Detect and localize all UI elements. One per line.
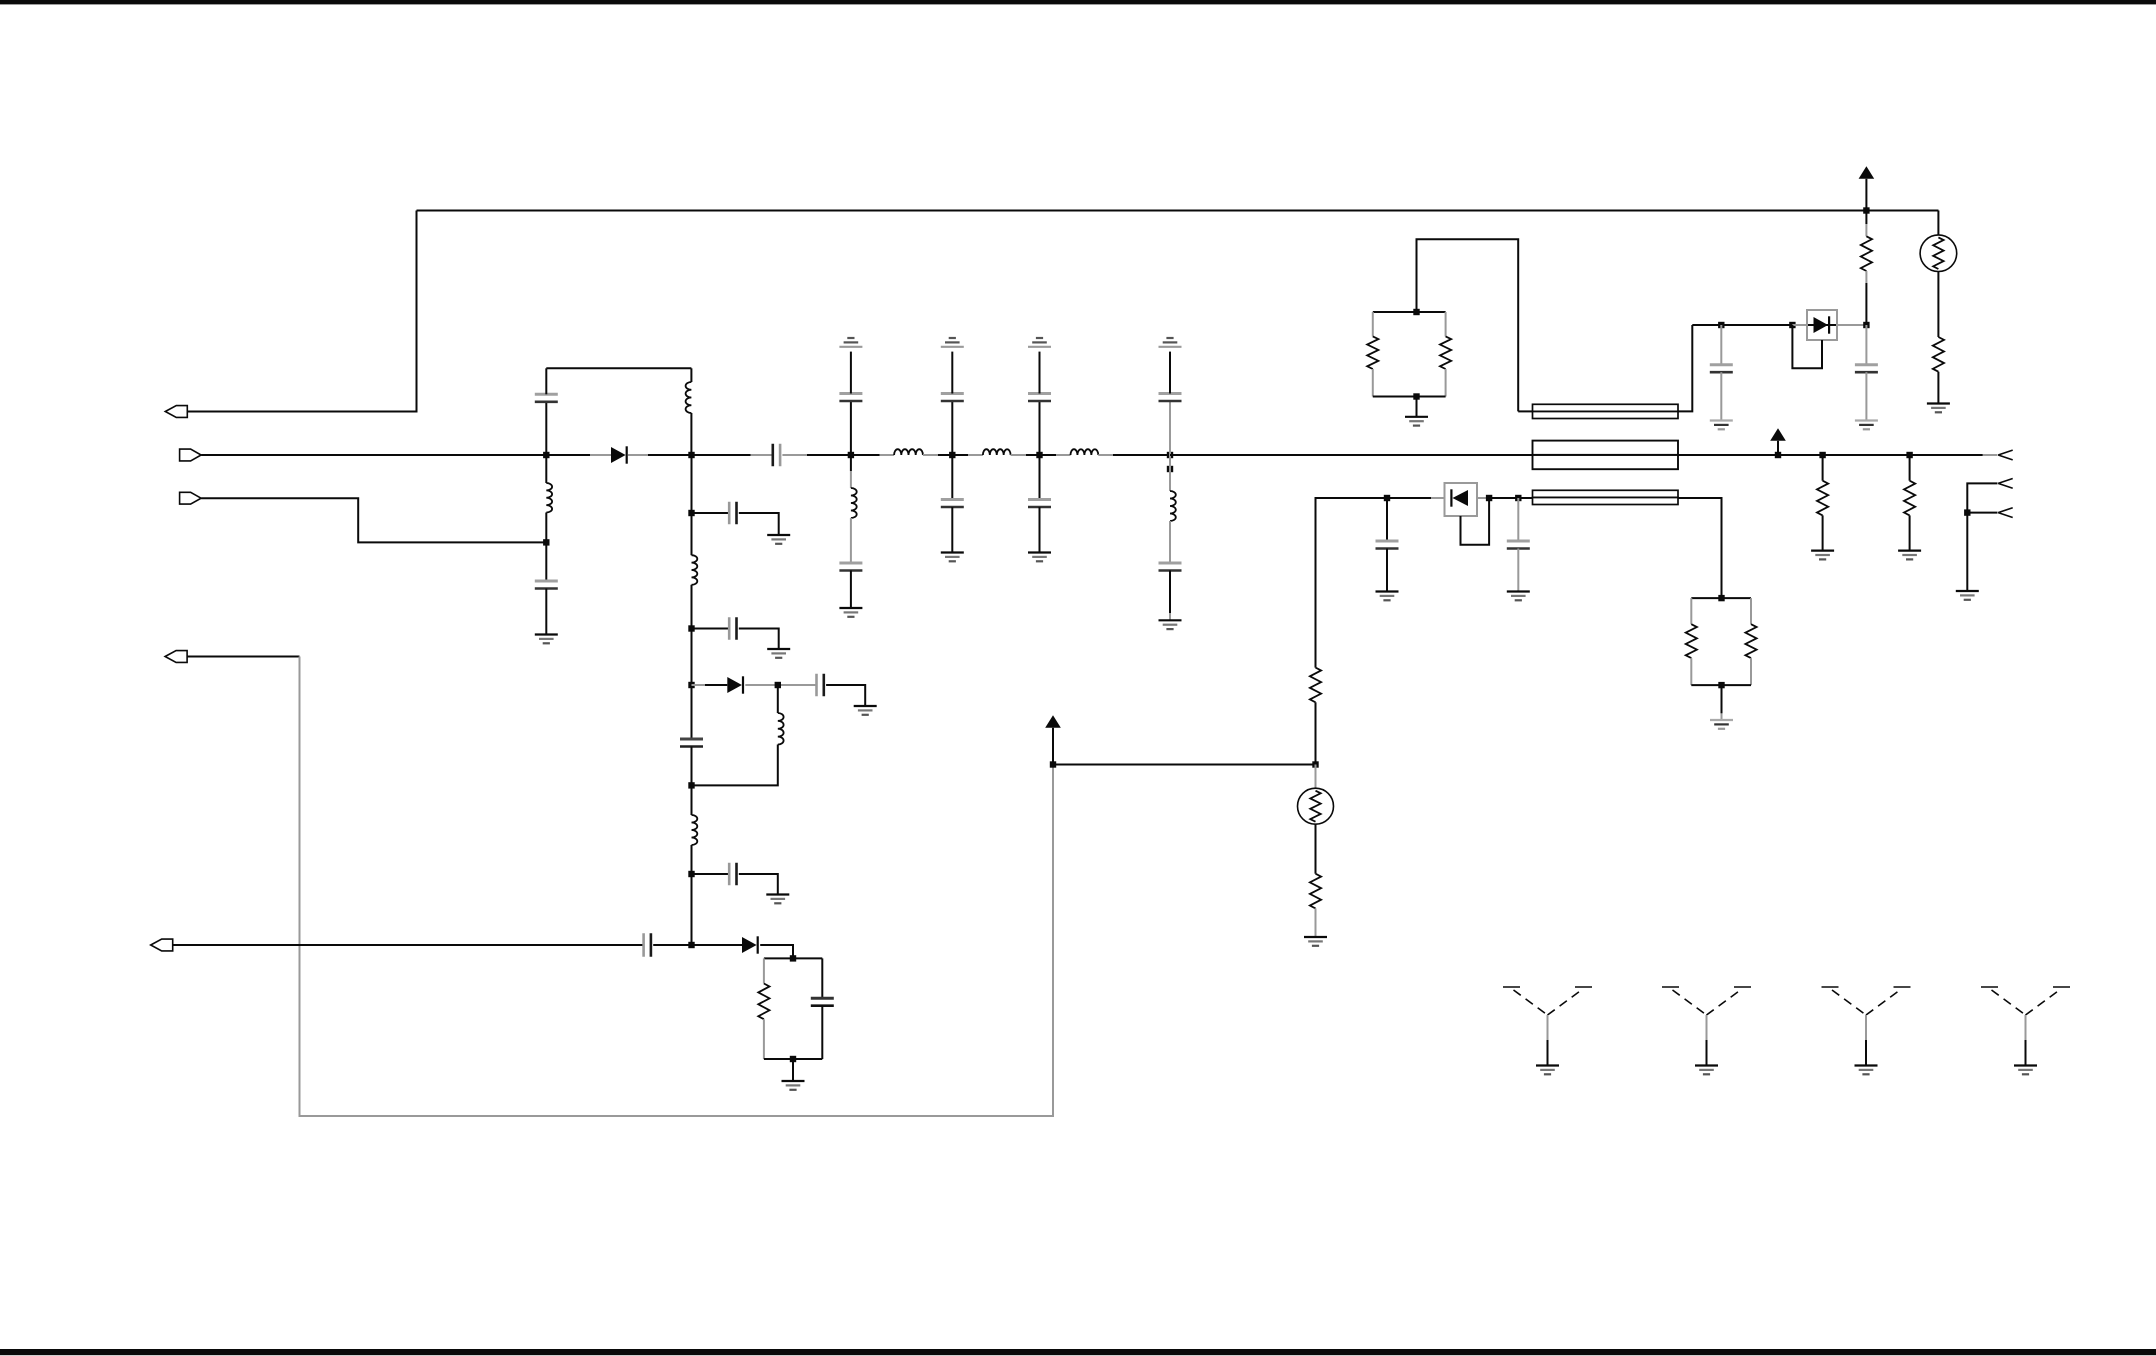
wire L1 to main line [690, 413, 692, 455]
wire R4 to node D [1315, 702, 1317, 764]
ground below C22 [1855, 421, 1878, 430]
wire corner down to RT2 [1937, 211, 1939, 236]
Rx node 3 junction [1515, 495, 1521, 501]
capacitor C21 (bias shunt 1) [1710, 325, 1733, 421]
stripline pair SL3 lower rect [1533, 497, 1679, 504]
node C1 junction [688, 510, 694, 516]
wire SL1 left feed [1518, 410, 1532, 412]
wire L4 top lead [777, 685, 779, 713]
wire J2 stub [1967, 483, 1997, 512]
col4 junction [1167, 452, 1173, 458]
inductor L1 (loop right) [686, 382, 692, 413]
col1 junction [848, 452, 854, 458]
resistor R9 (tank1 right) [1440, 312, 1451, 397]
ground below R10 [1811, 551, 1834, 560]
node E junction [1863, 207, 1869, 213]
wire Rx left corner [1316, 498, 1388, 668]
wire gray return loop [300, 657, 1054, 1117]
node C2 junction [688, 625, 694, 631]
wire L8 to col3 [1011, 454, 1040, 456]
inductor L3 (column) [692, 513, 698, 585]
thermistor RT1 (circle resistor) [1298, 765, 1334, 825]
wire Rx node1 to D3 [1387, 497, 1445, 499]
wire D1 to node C [628, 454, 692, 456]
inductor L9 (series) [1071, 449, 1099, 455]
bottom border bar [0, 1349, 2156, 1355]
ground below Y3 [1855, 1066, 1878, 1075]
wire SL1 right feed up [1678, 325, 1692, 411]
wire node A up to C1 [545, 402, 547, 455]
capacitor C3 (branch 1) [729, 502, 736, 525]
tank2 top rail [1691, 597, 1751, 599]
ground below C15 [1028, 553, 1051, 562]
wire RT2 to R6 [1937, 272, 1939, 338]
resistor R6 (right chain) [1933, 337, 1944, 372]
wire branch 1 [692, 512, 730, 514]
wire col2 to L8 [952, 454, 983, 456]
port P3 (input) [180, 492, 202, 504]
node R11 junction [1906, 452, 1912, 458]
capacitor C22 (bias shunt 2) [1855, 325, 1878, 421]
capacitor C7 (branch 4) [729, 863, 736, 886]
wire tank to ground [792, 1059, 794, 1081]
Rx node 2 junction [1486, 495, 1492, 501]
wire R6 to ground [1937, 372, 1939, 404]
wire node D rail [1053, 764, 1316, 766]
diode D2 (branch 3) [727, 676, 743, 693]
tank1 bottom rail [1373, 396, 1446, 398]
capacitor C1 (series, loop left) [535, 394, 558, 402]
antenna Y3 [1822, 987, 1911, 1066]
wire P4 stub [187, 656, 299, 658]
ground below C21 [1710, 421, 1733, 430]
capacitor C15 (col3 down) [1028, 455, 1051, 553]
ground below C20 [1507, 592, 1530, 601]
port P4 (output, mid left) [165, 651, 187, 663]
node A junction [543, 452, 549, 458]
wire node C6 to D5 [692, 944, 743, 946]
tank2 bottom rail [1691, 684, 1751, 686]
wire C7 to ground [739, 874, 778, 895]
inductor L7 (series) [894, 449, 923, 455]
node C4 junction [688, 782, 694, 788]
node D junction [1312, 761, 1318, 767]
wire branch 3 to D2 [692, 684, 728, 686]
inductor L10 (col4 down) [1170, 455, 1176, 521]
wire tank1 feed [1417, 239, 1519, 411]
wire L3 to node C2 [691, 585, 693, 629]
node F3 junction [1863, 322, 1869, 328]
node C3b junction (L4 top) [775, 682, 781, 688]
ground below C6 [854, 706, 877, 715]
wire node B to C2 [545, 542, 547, 581]
col3 junction [1036, 452, 1042, 458]
wire D3 bypass loop [1461, 498, 1490, 545]
inductor L5 (column) [692, 785, 698, 845]
wire SL2 to output [1678, 454, 1983, 456]
ground below R11 [1898, 551, 1921, 560]
wire L5 to node C5 [691, 845, 693, 874]
resistor R2 (tank2 left) [1686, 598, 1697, 685]
capacitor C9 (series, main line) [773, 444, 780, 467]
wire C4 to ground [739, 629, 779, 650]
node T4 junction [1718, 682, 1724, 688]
ground below tank [782, 1081, 805, 1090]
wire C2 to ground [545, 589, 547, 635]
antenna Y4 [1981, 987, 2070, 1066]
wire branch 4 [692, 873, 730, 875]
ground below C13 [941, 553, 964, 562]
ground below C4 [767, 649, 790, 658]
wire node A to D1 [546, 454, 611, 456]
node F2 junction [1789, 322, 1795, 328]
inductor L2 (node A down) [546, 455, 552, 513]
Rx node 1 junction [1384, 495, 1390, 501]
tank top rail [764, 957, 822, 959]
wire node C to C9 [692, 454, 773, 456]
ground above C14 [1028, 338, 1051, 347]
wire C1 to loop top [545, 368, 547, 394]
resistor R11 (output shunt 2) [1904, 455, 1915, 551]
capacitor C14 (col3 up) [1028, 352, 1051, 455]
wire RT1 to R5 [1315, 824, 1317, 874]
node T2 junction [790, 1056, 796, 1062]
wire tank1 to ground [1416, 397, 1418, 417]
ground below Y4 [2014, 1066, 2037, 1075]
capacitor C10 (col1 up) [839, 352, 862, 455]
node C5 junction [688, 871, 694, 877]
power arrow VB3 [1770, 428, 1786, 441]
node C3 junction [688, 682, 694, 688]
ground above C12 [941, 338, 964, 347]
wire tank2 to ground [1721, 685, 1723, 720]
top border bar [0, 0, 2156, 4]
wire node C down [691, 455, 693, 513]
capacitor C12 (col2 up) [941, 352, 964, 455]
wire D3 out [1477, 497, 1489, 499]
inductor L6 (col1 down) [851, 455, 857, 518]
tank1 top rail [1373, 311, 1446, 313]
wire col3 to L9 [1040, 454, 1071, 456]
stripline pair SL1 upper rect [1533, 404, 1679, 411]
wire VB2 stem [1865, 179, 1867, 211]
node B junction [543, 539, 549, 545]
ground below C18 [1159, 620, 1182, 629]
stripline pair SL3 upper rect [1533, 490, 1679, 497]
node C6 junction [688, 942, 694, 948]
stripline pair SL1 lower rect [1533, 411, 1679, 418]
wire C3 to ground [739, 513, 779, 535]
capacitor C11 (col1 down) [839, 518, 862, 608]
ground below J [1956, 591, 1979, 600]
thermistor RT2 (circle resistor) [1920, 235, 1957, 272]
connector arrow J1 (RF out) [1998, 450, 2013, 460]
capacitor C6 (branch 3) [817, 674, 824, 697]
wire branch 2 [692, 628, 730, 630]
ground below tank1 [1405, 417, 1428, 426]
power arrow VB1 [1045, 715, 1061, 728]
wire C17 to node C6 [653, 944, 691, 946]
wire col1 to L7 [851, 454, 894, 456]
wire P5 to C17 [173, 944, 643, 946]
resistor R8 (tank1 left) [1367, 312, 1378, 397]
node R10 junction [1819, 452, 1825, 458]
col2 junction [949, 452, 955, 458]
inductor L8 (series) [983, 449, 1011, 455]
wire C6 to ground [826, 685, 865, 706]
wire col4 to coupler [1170, 454, 1533, 456]
port P2 (main RF input) [180, 449, 202, 461]
ground above C16 [1159, 338, 1182, 347]
diode D1 (series, main line) [611, 446, 627, 463]
ground below C7 [766, 895, 789, 904]
node C junction [688, 452, 694, 458]
ground below Y1 [1536, 1066, 1559, 1075]
node T3 junction [1718, 595, 1724, 601]
resistor R4 (bias top) [1310, 668, 1321, 703]
wire J ground [1966, 513, 1968, 591]
wire C5 to node C4 [691, 747, 693, 786]
tank bottom rail [764, 1058, 822, 1060]
wire L2 to node B [545, 513, 547, 543]
resistor R10 (output shunt 1) [1817, 455, 1828, 551]
wire C9 to col1 [782, 454, 851, 456]
node F1 junction [1718, 322, 1724, 328]
ground below C19 [1376, 592, 1399, 601]
wire top rail to corner [1866, 210, 1938, 212]
port P5 (output, lower left) [151, 939, 173, 951]
antenna Y2 [1662, 987, 1751, 1066]
node J junction [1964, 509, 1970, 515]
wire P3 route to node B [201, 498, 546, 542]
wire VB1 stem [1052, 728, 1054, 765]
ground below C11 [839, 608, 862, 617]
wire P2 to node A [201, 454, 546, 456]
port P1 (output, upper left) [165, 406, 187, 418]
wire output gray tip [1983, 454, 1998, 456]
stripline SL2 upper rect [1533, 441, 1679, 455]
wire VB3 stem [1777, 441, 1779, 455]
ground below R6 [1927, 404, 1950, 413]
capacitor C19 (Rx shunt 1) [1376, 498, 1399, 592]
capacitor C8 (tank right) [811, 958, 834, 1059]
wire loop top [546, 367, 691, 369]
capacitor C17 (series from P5) [644, 933, 651, 957]
ground below Y2 [1695, 1066, 1718, 1075]
capacitor C2 (node B to ground) [535, 581, 558, 589]
ground above C10 [839, 338, 862, 347]
node T1 junction [790, 955, 796, 961]
wire top rail [417, 210, 1939, 212]
capacitor C5 (series in column) [680, 739, 703, 747]
wire D4 bypass loop [1792, 325, 1822, 368]
capacitor C4 (branch 2) [729, 617, 736, 640]
capacitor C20 (Rx shunt 2) [1507, 498, 1530, 592]
capacitor C18 (col4 down) [1159, 521, 1182, 620]
diode D4 (boxed) [1792, 310, 1866, 340]
wire Rx node2 to node3 [1489, 497, 1532, 499]
wire node C5 down [691, 874, 693, 945]
capacitor C16 (col4 up) [1159, 352, 1182, 455]
wire L9 to col4 [1098, 454, 1170, 456]
connector arrow J3 [1998, 508, 2013, 518]
wire L4 to node C4 [692, 745, 778, 786]
connector arrow J2 [1998, 479, 2013, 489]
ground below C3 [767, 535, 790, 544]
wire SL3 right out [1678, 498, 1722, 598]
resistor R3 (tank2 right) [1745, 598, 1756, 685]
ground below tank2 [1710, 720, 1733, 729]
wire J3 stub [1967, 512, 1997, 514]
stripline SL2 lower rect [1533, 455, 1679, 469]
wire loop right down [690, 368, 692, 382]
wire bias rail y325 [1692, 324, 1866, 326]
power arrow VB2 [1859, 166, 1875, 179]
col4 lower junction [1167, 466, 1173, 472]
wire P1 to top rail corner [187, 211, 416, 412]
diode D5 (to tank) [742, 936, 758, 953]
node D2j junction [1050, 761, 1056, 767]
diode D3 (boxed, Rx) [1445, 483, 1478, 516]
wire node C2 down [691, 629, 693, 740]
node G2 junction [1413, 393, 1419, 399]
capacitor C13 (col2 down) [941, 455, 964, 553]
wire L7 to col2 [923, 454, 952, 456]
resistor R1 (tank left) [758, 958, 769, 1059]
inductor L4 (feedback) [778, 713, 784, 745]
resistor R7 (VB2 chain) [1861, 211, 1872, 326]
ground below R5 [1304, 937, 1327, 946]
antenna Y1 [1503, 987, 1592, 1066]
wire D5 to tank [760, 945, 793, 958]
wire D2 to C6 [745, 684, 816, 686]
node H junction [1775, 452, 1781, 458]
wire R5 to ground [1315, 908, 1317, 937]
node G1 junction [1413, 309, 1419, 315]
resistor R5 (bias bottom) [1310, 874, 1321, 909]
ground below C2 [535, 635, 558, 644]
